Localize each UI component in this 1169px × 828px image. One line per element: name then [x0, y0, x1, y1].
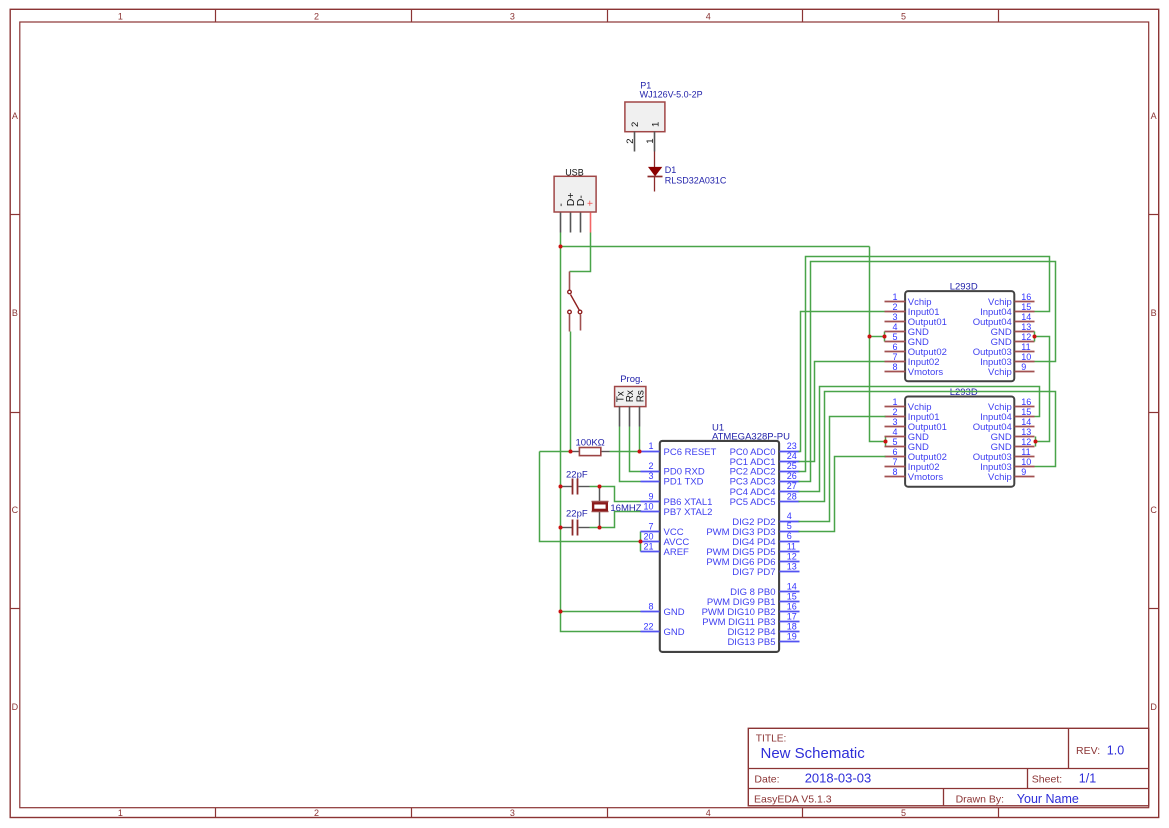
svg-text:A: A — [1151, 111, 1157, 121]
svg-text:PB7 XTAL2: PB7 XTAL2 — [664, 507, 713, 518]
svg-text:2: 2 — [892, 407, 897, 417]
wire GND vertical x=869.7 with branch to L293D1 pins 4,5 — [870, 247, 886, 447]
svg-text:B: B — [1151, 308, 1157, 318]
svg-text:Vmotors: Vmotors — [908, 472, 944, 483]
wire XTAL2 to U1 pin10 — [600, 512, 641, 528]
wire U1 p25 to L293D1 Input04 — [799, 257, 1050, 472]
svg-text:New Schematic: New Schematic — [761, 745, 866, 762]
svg-text:3: 3 — [510, 808, 515, 818]
svg-text:5: 5 — [892, 437, 897, 447]
svg-text:24: 24 — [787, 451, 797, 461]
svg-text:14: 14 — [1021, 417, 1031, 427]
capacitor C2 22pF — [561, 508, 590, 535]
junction +5V at resistor — [569, 450, 573, 454]
svg-text:25: 25 — [787, 461, 797, 471]
junction RESET/Rs — [638, 450, 642, 454]
svg-text:8: 8 — [892, 362, 897, 372]
svg-text:6: 6 — [892, 447, 897, 457]
svg-text:5: 5 — [901, 11, 906, 21]
wire GND branch to U1 pin 8 — [561, 611, 641, 613]
svg-text:Vmotors: Vmotors — [908, 367, 944, 378]
svg-text:5: 5 — [787, 521, 792, 531]
svg-text:8: 8 — [892, 467, 897, 477]
junction GND U1 pin8 — [559, 610, 563, 614]
svg-text:D: D — [1150, 702, 1157, 712]
svg-text:1: 1 — [118, 11, 123, 21]
svg-text:8: 8 — [648, 602, 653, 612]
wire U1 p4 to L293D2 Input01 — [799, 417, 886, 522]
pin 1 (-) of USB — [560, 213, 562, 233]
pin 2 of P1 — [625, 132, 636, 152]
svg-text:AREF: AREF — [664, 547, 690, 558]
svg-text:21: 21 — [643, 541, 653, 551]
svg-text:2: 2 — [892, 302, 897, 312]
svg-text:DIG7 PD7: DIG7 PD7 — [732, 567, 775, 578]
pin Tx of Prog — [619, 407, 621, 427]
svg-text:15: 15 — [1021, 407, 1031, 417]
svg-text:1.0: 1.0 — [1107, 743, 1124, 757]
svg-text:7: 7 — [648, 521, 653, 531]
svg-text:GND: GND — [664, 627, 685, 638]
pin Rs of Prog — [639, 407, 641, 427]
svg-text:17: 17 — [787, 611, 797, 621]
svg-text:11: 11 — [1021, 447, 1030, 457]
IC L293D #1 — [885, 282, 1035, 382]
svg-text:+: + — [585, 200, 597, 206]
resistor 100KΩ — [571, 438, 610, 456]
wire Rx to U1 pin2 RXD — [630, 427, 641, 472]
svg-text:3: 3 — [892, 417, 897, 427]
wire C1 to crystal — [590, 486, 600, 488]
svg-text:16: 16 — [1021, 397, 1031, 407]
pin 4 (+) of USB — [590, 213, 592, 233]
IC U1 ATMEGA328P-PU — [641, 422, 800, 652]
pin Rx of Prog — [629, 407, 631, 427]
svg-text:22: 22 — [643, 622, 653, 632]
svg-text:1: 1 — [892, 397, 897, 407]
svg-text:2018-03-03: 2018-03-03 — [805, 771, 872, 786]
wire XTAL1 to U1 pin9 — [600, 487, 641, 502]
svg-text:A: A — [12, 111, 18, 121]
svg-text:3: 3 — [648, 471, 653, 481]
svg-text:D1: D1 — [665, 165, 677, 175]
junction GND L293D2 left — [884, 440, 888, 444]
svg-text:PC6 RESET: PC6 RESET — [664, 447, 717, 458]
svg-text:ATMEGA328P-PU: ATMEGA328P-PU — [712, 431, 790, 442]
svg-text:18: 18 — [787, 622, 797, 632]
svg-text:9: 9 — [648, 491, 653, 501]
svg-text:DIG13 PB5: DIG13 PB5 — [727, 637, 775, 648]
svg-text:Prog.: Prog. — [620, 374, 643, 385]
svg-text:6: 6 — [787, 531, 792, 541]
svg-text:5: 5 — [892, 332, 897, 342]
svg-text:1/1: 1/1 — [1079, 772, 1096, 786]
wire U1 p23 to L293D1 Input01 — [799, 312, 885, 452]
wire Tx to U1 pin3 TXD — [620, 427, 641, 482]
svg-text:L293D: L293D — [950, 387, 978, 398]
svg-text:12: 12 — [787, 551, 797, 561]
svg-text:1: 1 — [645, 139, 656, 144]
wire U1 p28 to L293D2 Input03 — [799, 392, 1056, 502]
diode D1 — [648, 152, 727, 192]
svg-text:3: 3 — [892, 312, 897, 322]
wire resistor to U1 pin1 (RESET) — [610, 451, 640, 453]
svg-text:13: 13 — [787, 561, 797, 571]
svg-text:2: 2 — [314, 808, 319, 818]
svg-text:4: 4 — [892, 322, 897, 332]
wire GND from USB pin1 down left side to U1 pin22 — [561, 233, 641, 632]
svg-text:26: 26 — [787, 471, 797, 481]
svg-text:L293D: L293D — [950, 282, 978, 293]
junction GND L293D1 left — [868, 335, 887, 339]
svg-text:16: 16 — [1021, 292, 1031, 302]
junction C1 left — [559, 485, 563, 489]
svg-text:13: 13 — [1021, 322, 1031, 332]
svg-text:1: 1 — [118, 808, 123, 818]
svg-text:USB: USB — [565, 168, 584, 178]
svg-text:9: 9 — [1021, 362, 1026, 372]
svg-text:10: 10 — [643, 501, 653, 511]
wire +5V from USB pin4 to switch — [570, 233, 591, 272]
connector Prog — [615, 374, 647, 407]
svg-text:RLSD32A031C: RLSD32A031C — [665, 176, 727, 186]
wire Rs to RESET line — [639, 427, 641, 452]
svg-text:Vchip: Vchip — [988, 472, 1012, 483]
svg-text:Vchip: Vchip — [988, 367, 1012, 378]
svg-text:Date:: Date: — [754, 773, 779, 785]
svg-text:GND: GND — [664, 607, 685, 618]
svg-text:Drawn By:: Drawn By: — [956, 793, 1004, 805]
svg-text:2: 2 — [648, 461, 653, 471]
junction GND L293D1 right — [1033, 335, 1037, 339]
wire U1 p24 to L293D1 Input02 — [799, 362, 885, 462]
svg-text:REV:: REV: — [1076, 745, 1100, 757]
svg-text:WJ126V-5.0-2P: WJ126V-5.0-2P — [640, 89, 703, 99]
svg-text:Your Name: Your Name — [1017, 792, 1079, 806]
junction C2 right / XTAL2 — [598, 526, 602, 530]
svg-text:11: 11 — [787, 541, 796, 551]
junction C1 right / XTAL1 — [598, 485, 602, 489]
svg-text:2: 2 — [625, 139, 636, 144]
svg-text:Rs: Rs — [635, 390, 646, 402]
junction C2 left — [559, 526, 563, 530]
svg-text:4: 4 — [892, 427, 897, 437]
svg-text:2: 2 — [630, 122, 641, 127]
svg-text:14: 14 — [1021, 312, 1031, 322]
svg-text:10: 10 — [1021, 457, 1031, 467]
svg-text:PD1 TXD: PD1 TXD — [664, 477, 704, 488]
pin 2 (D+) of USB — [570, 213, 572, 233]
svg-text:2: 2 — [314, 11, 319, 21]
svg-text:3: 3 — [510, 11, 515, 21]
svg-text:7: 7 — [892, 352, 897, 362]
svg-text:B: B — [12, 308, 18, 318]
svg-text:6: 6 — [892, 342, 897, 352]
svg-text:PC5 ADC5: PC5 ADC5 — [730, 497, 776, 508]
IC L293D #2 — [885, 387, 1035, 487]
wire U1 p5 to L293D2 Output02 — [799, 457, 886, 532]
capacitor C1 22pF — [561, 469, 590, 494]
junction GND L293D2 right — [1034, 440, 1038, 444]
pin 1 of P1 — [645, 132, 656, 152]
svg-text:Sheet:: Sheet: — [1032, 773, 1062, 785]
connector USB — [554, 168, 597, 212]
wire +5V switch to reset pullup line — [570, 332, 572, 452]
svg-text:22pF: 22pF — [566, 508, 588, 519]
svg-text:100KΩ: 100KΩ — [576, 438, 605, 449]
svg-text:C: C — [12, 505, 19, 515]
svg-text:14: 14 — [787, 581, 797, 591]
svg-text:9: 9 — [1021, 467, 1026, 477]
svg-text:13: 13 — [1021, 427, 1031, 437]
junction GND at USB — [559, 245, 563, 249]
svg-text:12: 12 — [1021, 332, 1031, 342]
switch SPDT — [568, 272, 582, 332]
svg-text:5: 5 — [901, 808, 906, 818]
svg-text:4: 4 — [787, 511, 792, 521]
wire C2 to crystal — [590, 527, 600, 529]
svg-text:10: 10 — [1021, 352, 1031, 362]
wire +5V to VCC/AVCC/AREF — [540, 452, 641, 552]
pin 3 (D-) of USB — [580, 213, 582, 233]
svg-text:1: 1 — [892, 292, 897, 302]
svg-text:23: 23 — [787, 441, 797, 451]
wire U1 p27 to L293D2 Input04 — [799, 387, 1040, 492]
svg-text:C: C — [1150, 505, 1157, 515]
svg-text:EasyEDA V5.1.3: EasyEDA V5.1.3 — [754, 793, 832, 805]
svg-text:11: 11 — [1021, 342, 1030, 352]
svg-text:4: 4 — [706, 11, 711, 21]
svg-text:TITLE:: TITLE: — [756, 734, 787, 745]
svg-text:16: 16 — [787, 601, 797, 611]
connector P1 — [625, 80, 703, 131]
svg-text:15: 15 — [787, 591, 797, 601]
svg-text:20: 20 — [643, 531, 653, 541]
svg-text:12: 12 — [1021, 437, 1031, 447]
svg-text:4: 4 — [706, 808, 711, 818]
junction AVCC — [639, 540, 643, 544]
svg-text:28: 28 — [787, 491, 797, 501]
wire GND top horizontal to L293D chips — [561, 246, 870, 248]
svg-text:7: 7 — [892, 457, 897, 467]
svg-text:19: 19 — [787, 632, 797, 642]
wire U1 p26 to L293D1 Input03 — [799, 262, 1056, 482]
crystal X1 16MHZ — [592, 487, 642, 528]
wire GND L293D1 pins12,13 to L293D2 pins12,13 — [1035, 332, 1050, 447]
svg-text:15: 15 — [1021, 302, 1031, 312]
svg-text:1: 1 — [648, 441, 653, 451]
svg-text:1: 1 — [650, 122, 661, 127]
svg-text:27: 27 — [787, 481, 797, 491]
svg-text:D: D — [12, 702, 19, 712]
